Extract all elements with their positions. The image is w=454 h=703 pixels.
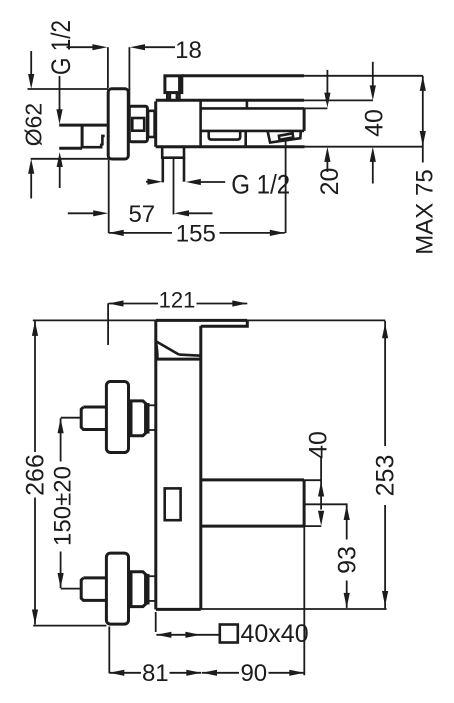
FRONT VIEW: handle profile arc bbox=[156, 341, 158, 359]
FRONT VIEW: upper supply centreline bbox=[61, 417, 81, 419]
FRONT VIEW: lower supply stub bbox=[81, 578, 106, 601]
dim 40 front: stem and arrows bbox=[320, 456, 322, 510]
FRONT VIEW: body plate right edge bbox=[199, 326, 202, 610]
SIDE VIEW: recess channel under body bbox=[209, 131, 241, 139]
dim 57: extension line at hose nipple centre bbox=[173, 159, 175, 215]
dim G 1/2 supply: arrow down to nipple bbox=[59, 76, 61, 111]
dim 57: right arrow pointing left bbox=[188, 212, 213, 214]
FRONT VIEW: lower supply flange bbox=[106, 553, 128, 624]
dim 155: extension line at wall face (down) bbox=[108, 160, 110, 234]
SIDE VIEW: top shelf surface line bbox=[182, 74, 304, 77]
dim 40 side: arrow down to body top bbox=[372, 62, 374, 87]
dim 253: bottom extension line at plate bottom bbox=[201, 608, 387, 610]
SIDE VIEW: valve body outline bbox=[154, 101, 157, 146]
FRONT VIEW: shelf bottom step and end face bbox=[201, 320, 248, 326]
dim MAX 75: dimension line bbox=[422, 76, 424, 163]
FRONT VIEW: body plate left edge bbox=[154, 320, 157, 609]
SIDE VIEW: hand-shower outlet flange under body bbox=[162, 147, 184, 158]
FRONT VIEW: lower supply centreline bbox=[61, 588, 81, 590]
dim 40 side: arrow up to body bottom bbox=[372, 161, 374, 184]
dim 81: dimension line bbox=[109, 672, 141, 674]
dim 18: extension line at wall face bbox=[107, 47, 109, 88]
dim 18: right arrow pointing left bbox=[145, 46, 175, 48]
SIDE VIEW: diverter lever under spout bbox=[268, 131, 301, 143]
FRONT VIEW: spout bottom edge bbox=[201, 525, 304, 528]
FRONT VIEW: upper supply flange bbox=[106, 382, 128, 453]
FRONT VIEW: upper union collar bbox=[146, 404, 149, 432]
SIDE VIEW: wall escutcheon Ø62 (rounded plate, edge-on) bbox=[108, 89, 128, 159]
dim 18: left arrow pointing right bbox=[67, 46, 95, 48]
svg-text:155: 155 bbox=[176, 221, 216, 248]
svg-text:20: 20 bbox=[316, 168, 344, 196]
svg-text:81: 81 bbox=[142, 660, 169, 687]
SIDE VIEW: union nut inner square bbox=[132, 118, 144, 131]
dim 150±20: dimension line with arrows bbox=[60, 418, 62, 461]
dim 93: dimension line with arrows bbox=[346, 505, 348, 540]
dim 40 front: extension of spout bottom bbox=[304, 525, 321, 527]
dim G 1/2 hose: opposing arrow pointing right bbox=[146, 181, 150, 183]
SIDE VIEW: union nut bbox=[129, 106, 147, 142]
SIDE VIEW: hand-shower nipple G 1/2 bbox=[162, 158, 165, 183]
FRONT VIEW: spout end extension line down to dim 90 bbox=[303, 526, 305, 675]
svg-text:MAX 75: MAX 75 bbox=[411, 169, 438, 254]
dim 40 side: extension of spout top bbox=[304, 107, 327, 109]
dim Ø62: top tangent extension line bbox=[28, 88, 109, 90]
FRONT VIEW: spout outlet centreline bbox=[304, 503, 348, 505]
SIDE VIEW: handle stem bbox=[167, 93, 179, 101]
dim 40 front: extension of spout top bbox=[304, 479, 321, 481]
dim square 40x40: double arrow across plate width bbox=[156, 634, 219, 636]
FRONT VIEW: lower union nut bbox=[131, 572, 146, 607]
FRONT VIEW: upper union neck lines bbox=[148, 404, 156, 406]
dim 90: dimension line bbox=[202, 672, 239, 674]
extension of top shelf line to MAX 75 bbox=[304, 75, 423, 77]
dim G 1/2 supply: arrow up to nipple bottom bbox=[59, 166, 61, 189]
dim square 40x40: plate left extension bbox=[155, 612, 157, 632]
dim 121: dimension line bbox=[109, 303, 159, 305]
svg-text:90: 90 bbox=[240, 660, 267, 687]
svg-text:266: 266 bbox=[21, 454, 49, 496]
svg-text:150±20: 150±20 bbox=[49, 466, 76, 546]
dim 57: left arrow pointing right bbox=[68, 212, 95, 214]
dim 18: extension line at nut face bbox=[128, 47, 130, 105]
svg-text:121: 121 bbox=[159, 287, 196, 312]
svg-text:57: 57 bbox=[128, 201, 155, 228]
svg-text:40: 40 bbox=[360, 109, 388, 137]
svg-text:G 1/2: G 1/2 bbox=[231, 170, 290, 200]
dim Ø62: bottom tangent extension line bbox=[31, 158, 109, 160]
dim 20: arrow up to body bottom bbox=[326, 160, 328, 172]
FRONT VIEW: upper supply stub bbox=[81, 407, 106, 430]
SIDE VIEW: connector collar between nut and body bbox=[148, 111, 155, 137]
FRONT VIEW: upper union nut bbox=[131, 401, 146, 436]
dim Ø62: arrow up to bottom tangent bbox=[30, 172, 32, 199]
dim 266: dimension line with arrows bbox=[34, 321, 36, 452]
svg-text:40x40: 40x40 bbox=[241, 620, 309, 648]
svg-text:40: 40 bbox=[304, 431, 332, 459]
svg-text:18: 18 bbox=[175, 37, 202, 64]
dim square 40x40: square symbol bbox=[220, 625, 238, 643]
dim 121: left extension line at wall face bbox=[107, 303, 109, 345]
dim 81: left extension line bbox=[108, 627, 110, 674]
dim G 1/2 hose: leader arrow pointing left at nipple bbox=[199, 181, 225, 183]
FRONT VIEW: slot aperture on plate bbox=[165, 488, 181, 520]
FRONT VIEW: lower union neck lines bbox=[148, 575, 156, 577]
dim 155: dimension line with outward arrows bbox=[109, 232, 172, 234]
dim 253: dimension line with arrows bbox=[384, 321, 386, 446]
svg-text:93: 93 bbox=[333, 546, 361, 574]
dim Ø62: arrow down to top tangent bbox=[30, 51, 32, 76]
FRONT VIEW: long top reference line bbox=[33, 319, 156, 321]
dim 155: extension line at diverter centre bbox=[285, 141, 287, 233]
extension of body bottom line to MAX 75 bbox=[305, 146, 423, 148]
SIDE VIEW: lever handle head bbox=[165, 76, 182, 93]
svg-text:Ø62: Ø62 bbox=[21, 103, 47, 146]
dim 20: arrow down to spout top surface bbox=[326, 70, 328, 95]
dim 40 side: extension of body top bbox=[304, 99, 373, 101]
FRONT VIEW: body plate bottom edge bbox=[156, 608, 201, 611]
FRONT VIEW: handle bottom edge bbox=[156, 358, 201, 361]
FRONT VIEW: lower union collar bbox=[146, 575, 149, 603]
SIDE VIEW: concealed supply nipple G 1/2 behind wall bbox=[59, 124, 108, 127]
svg-text:253: 253 bbox=[371, 455, 399, 497]
dim 266: bottom extension line at flange bottom bbox=[33, 625, 106, 627]
FRONT VIEW: handle lever diagonal bbox=[156, 341, 179, 354]
FRONT VIEW: spout end face bbox=[303, 480, 306, 526]
FRONT VIEW: spout top edge bbox=[201, 478, 304, 481]
